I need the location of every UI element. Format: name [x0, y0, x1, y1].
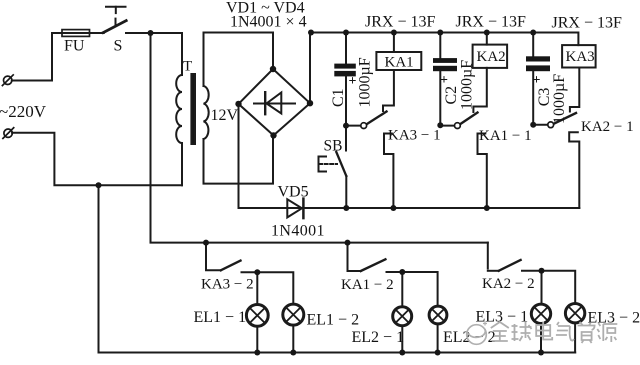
svg-text:EL1 − 1: EL1 − 1 [194, 309, 247, 326]
svg-text:+: + [440, 73, 448, 88]
svg-text:KA1: KA1 [385, 55, 414, 71]
svg-text:1000µF: 1000µF [551, 74, 568, 124]
svg-text:EL1 − 2: EL1 − 2 [307, 312, 360, 329]
svg-text:JRX − 13F: JRX − 13F [552, 15, 622, 32]
svg-text:KA3: KA3 [566, 49, 595, 65]
svg-text:1N4001 × 4: 1N4001 × 4 [230, 14, 307, 31]
svg-text:1000µF: 1000µF [459, 60, 476, 110]
svg-text:+: + [349, 74, 357, 89]
svg-text:EL2 − 1: EL2 − 1 [352, 329, 405, 346]
svg-text:KA2 − 2: KA2 − 2 [482, 276, 535, 292]
svg-text:1000µF: 1000µF [357, 57, 374, 107]
svg-text:SB: SB [324, 138, 343, 155]
svg-text:KA2: KA2 [477, 49, 506, 65]
svg-text:KA1 − 2: KA1 − 2 [341, 277, 394, 293]
svg-text:KA3 − 1: KA3 − 1 [388, 128, 441, 144]
svg-text:12V: 12V [211, 107, 239, 124]
svg-text:C1: C1 [330, 88, 347, 107]
svg-text:KA2 − 1: KA2 − 1 [581, 119, 634, 135]
svg-text:1N4001: 1N4001 [271, 223, 325, 240]
svg-text:KA3 − 2: KA3 − 2 [201, 277, 254, 293]
svg-text:FU: FU [64, 38, 85, 55]
svg-text:~220V: ~220V [0, 102, 47, 121]
svg-text:T: T [183, 59, 192, 75]
svg-text:EL2 − 2: EL2 − 2 [443, 329, 496, 346]
svg-text:KA1 − 1: KA1 − 1 [479, 128, 532, 144]
svg-text:+: + [533, 73, 541, 88]
svg-text:VD5: VD5 [278, 184, 309, 201]
svg-text:S: S [114, 38, 123, 55]
svg-text:JRX − 13F: JRX − 13F [456, 14, 526, 31]
svg-text:JRX − 13F: JRX − 13F [365, 14, 435, 31]
